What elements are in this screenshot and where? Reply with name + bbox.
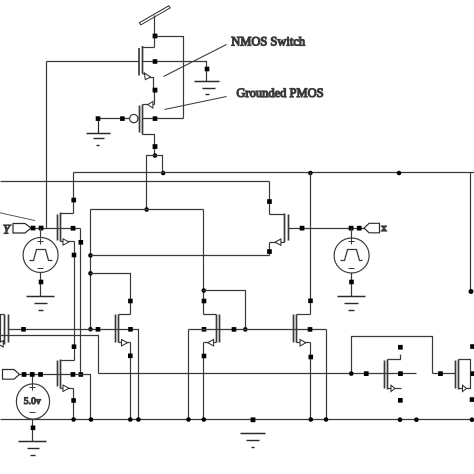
join square gate rail west (23.5,329.5) (21, 327, 26, 332)
pin square V1 minus terminal (41,282) (39, 280, 44, 285)
wire M1 gate from node Y riser (47, 61, 140, 63)
junction dot bus1/M8-drain riser (310.4,173) (308, 171, 313, 176)
join square M4 drain (130.5,301) (128, 299, 133, 304)
transistor M1 NMOS Switch: gate bar (138, 48, 140, 76)
wire y=273.5 to M4 drain (91, 274, 131, 301)
wire M4 source lead down to bottom bus (119, 343, 131, 420)
pin square M8 bulk (310,329.5) (308, 327, 313, 332)
junction dot bus/M4 source (130.3,419.5) (128, 417, 133, 422)
junction dot split node (155,155.5) (153, 153, 158, 158)
wire M1 bulk to ground G1 (157, 62, 207, 82)
wire bottom bus ground rail y=419.5 (1, 419, 474, 421)
join square gate rail west (98,329.5) (96, 327, 101, 332)
annotation line to port Y (0, 213, 35, 221)
transistor M1b gate bar (139, 106, 141, 133)
wire loop right corner to M11 gate (433, 373, 456, 375)
pin square port X (359,228.5) (357, 226, 362, 231)
pin square M10 drain floating (400.3,347.2) (398, 345, 403, 350)
voltage source V1 pulse at node Y (23, 229, 58, 297)
junction dot bus/M6 source (203.8,419.5) (202, 417, 207, 422)
junction dot bus/P3 wire (91,419.5) (89, 417, 94, 422)
svg-text:NMOS Switch: NMOS Switch (231, 35, 306, 49)
wire y=255.5 to M5 source (91, 255, 270, 257)
arrow M3 source (NMOS mirrored, clipped) (0, 341, 3, 347)
transistor M10 gate bar (384, 361, 386, 389)
ground G2 under V1 (27, 297, 55, 311)
annotation line to NMOS Switch label (164, 45, 227, 77)
transistor M10 channel bar (387, 360, 389, 390)
bubble M1b PMOS gate (130, 114, 138, 122)
wire M4 drain lead up (119, 303, 131, 315)
ground G5 under V3 (19, 442, 47, 456)
join square M8 source (310.8,357) (309, 355, 314, 360)
transistor M6 gate bar (mirrored) (219, 315, 221, 343)
transistor M8 gate bar (293, 315, 295, 343)
wire M1 drain lead (143, 47, 155, 49)
ground G0 (M1b gate) (87, 121, 111, 146)
wire M5 drain lead up to bus2 (270, 182, 285, 215)
arrow M10 source (NMOS) (391, 385, 395, 391)
join square P3 wire (40.5,374.5) (38, 372, 43, 377)
junction dot right edge (471,291.5) (469, 289, 474, 294)
wire M2 source lead down to M9 drain (61, 242, 75, 361)
transistor M9 gate bar (57, 361, 59, 387)
junction square M1b drain (155,146.5) (153, 144, 158, 149)
wire VDD stem (154, 16, 156, 35)
pin square M11 bulk (473,373.5) (471, 371, 474, 376)
wire M9 drain lead (from M2 source) (61, 360, 75, 362)
transistor M1 channel bar (142, 46, 144, 74)
wire mid horizontal y=209.5 (M2 area to M6 drain) (91, 209, 204, 211)
svg-text:x: x (381, 222, 387, 234)
join square gate rail east (234,329.5) (232, 327, 237, 332)
arrow M4 source (NMOS) (122, 340, 128, 346)
junction dot on gate rail west (90.5,329.5) (88, 327, 93, 332)
ground G1 (M1 bulk) (195, 82, 220, 95)
join square M10 gate wire (366.5,373.5) (364, 371, 369, 376)
join square M5 drain (269.5,201.5) (267, 199, 272, 204)
svg-text:Grounded PMOS: Grounded PMOS (236, 86, 323, 100)
join square M11 gate wire (440.4,373.5) (438, 371, 443, 376)
junction dot bus1 (399,173) (397, 171, 402, 176)
wire M6 drain tap to gate rail east (diode connection) (204, 291, 246, 330)
wire split box: left leg to mid wire, right leg to bus1 (147, 156, 163, 210)
join square M4 source (130.3,355.8) (128, 354, 133, 359)
wire gate rail east left drop to bus (188, 330, 190, 420)
transistor M9 channel bar (60, 360, 62, 389)
join square M2 drain (73.5,200) (71, 198, 76, 203)
arrow M2 source (NMOS) (63, 239, 69, 245)
wire M2 drain lead up to bus1 (61, 173, 74, 214)
pin square ground G1 stem (207,69) (205, 67, 210, 72)
junction dot box-left on mid wire (146.5,209.5) (144, 207, 149, 212)
wire y=335.5 from left edge with drop to long wire (1, 336, 99, 374)
junction dot bus/M9 source (73.5,419.5) (71, 417, 76, 422)
wire port P3 to bottom bus (20, 375, 91, 420)
wire M1b drain to split node (154, 149, 156, 156)
wire right edge riser from bus1 (470, 173, 472, 292)
join square on Y drop (80.5,242) (79, 240, 84, 245)
pin square M4 bulk (130.5,329.5) (128, 327, 133, 332)
transistor M5 gate bar (mirrored) (288, 215, 290, 241)
wire VDD to M1 drain (154, 39, 156, 48)
wire M6 drain lead up to mid wire (204, 210, 217, 315)
pin square M11 source floating (472,399.5) (470, 397, 474, 402)
join square M5 source (269.5,251.5) (267, 249, 272, 254)
wire M1b bulk to box right edge (143, 118, 184, 120)
wire node Y riser (M1 gate to Y wire) (46, 62, 48, 229)
svg-text:5.0v: 5.0v (24, 397, 41, 407)
pin square V1 plus terminal (41,228.5) (39, 226, 44, 231)
junction dot bus/M8 bulk drop (326,419.5) (324, 417, 329, 422)
junction square node M1-source/M1b-source (155,90) (153, 88, 158, 93)
transistor M11 gate bar (455, 361, 457, 389)
port P3 pentagon (bottom left input) (3, 370, 20, 380)
wire bus2 horizontal y=181.5 (1, 181, 270, 183)
junction dot (90.5,273.5) (88, 271, 93, 276)
transistor M4 gate bar (115, 315, 117, 343)
pin square M9 bulk (73,374.5) (71, 372, 76, 377)
transistor M3 gate bar (left edge, mirrored) (8, 315, 10, 343)
transistor M11 channel bar (458, 360, 460, 390)
wire node Y horizontal (31, 228, 81, 230)
arrow M6 source (NMOS mirrored) (208, 340, 214, 346)
pin square port P3 (24,374.5) (22, 372, 27, 377)
junction dot (90.5,255.5) (88, 253, 93, 258)
join square M6 source (204,356) (202, 354, 207, 359)
pin square V3 minus terminal (33,428) (31, 426, 36, 431)
transistor M2 gate bar (57, 215, 59, 241)
port Y pentagon (13, 224, 31, 234)
wire M5 source lead down to y=255.5 wire (270, 243, 285, 256)
transistor M1b channel bar (142, 105, 144, 135)
pin square M1b bulk (155,118.5) (153, 116, 158, 121)
wire diode loop over M10 (gate tie) (352, 337, 433, 374)
voltage source V3 5.0v (16, 377, 49, 442)
pin square M6 bulk (204,329.5) (202, 327, 207, 332)
transistor M1b Grounded PMOS: source lead from node (154, 93, 156, 105)
wire long horizontal y=373.5 to M10 (99, 373, 417, 375)
pin square G0 stem top (98,118.5) (96, 116, 101, 121)
pin square V2 minus terminal (351.5,282) (349, 280, 354, 285)
wire M10 source stub (388, 388, 402, 390)
transistor M5 channel bar (284, 214, 286, 243)
wire M1 bulk loop box (top rail and right edge) (157, 37, 184, 119)
junction dot bus/M8 source (310.8,419.5) (309, 417, 314, 422)
arrow M1b source (PMOS) (148, 102, 153, 109)
pin square M10 bulk (400.5,373.5) (398, 371, 403, 376)
pin square V3 plus terminal (32,374.5) (30, 372, 35, 377)
annotation line to Grounded PMOS label (165, 97, 227, 110)
wire M9 source to bottom bus (73, 403, 75, 420)
wire gate rail east y=329.5 (M6,M8 gates) (189, 329, 327, 331)
ground G6 under bottom bus (241, 434, 266, 448)
junction dot on gate rail east (245.5,329.5) (243, 327, 248, 332)
wire M1 bulk stub (143, 61, 155, 63)
wire riser bus1 to M8 drain x=310.5 (310, 173, 312, 315)
junction dot M6 drain tap (204,290.5) (202, 288, 207, 293)
junction node VDD/M1-drain (155,36) (153, 34, 158, 39)
transistor M6 channel bar (216, 315, 218, 343)
power symbol VDD (slanted bar) (139, 6, 170, 25)
pin square M11 drain floating (472.5,346.5) (470, 344, 474, 349)
pin square M1 bulk (155,61.5) (153, 59, 158, 64)
junction dot loop left on gate wire (351.5,373.5) (349, 371, 354, 376)
wire M3 drain/source leads (clipped at edge) (1, 315, 5, 344)
junction dot bus/gate rail east drop (188.5,419.5) (186, 417, 191, 422)
port X pentagon (364, 223, 379, 233)
wire bus1 horizontal y=172.5 (74, 172, 474, 174)
join square M2 source (74,346.7) (72, 344, 77, 349)
pin square M10 source floating (400.3,400.3) (398, 398, 403, 403)
wire M6 source lead down to bottom bus (204, 343, 217, 420)
arrow M1 source (NMOS) (144, 73, 150, 80)
pin square ground G6 attach (253,419.5) (251, 417, 256, 422)
pin square M1b gate wire join (122.4,118.5) (120, 116, 125, 121)
join square Y drop at P3 wire (80.5,374.5) (79, 372, 84, 377)
arrow M9 source (NMOS) (63, 385, 69, 391)
junction dot bus below M10 (400,419.5) (398, 417, 403, 422)
wire gate rail west y=329.5 (M3,M4 gates) with drop to bus (9, 330, 139, 420)
wire M10 drain stub up (388, 355, 401, 360)
wire M1 source lead down to node (143, 74, 154, 91)
pin square M2 bulk on Y wire (73,228.5) (71, 226, 76, 231)
wire M5 gate to node X (289, 228, 365, 230)
junction dot bus below wire end (416.4,419.5) (414, 417, 419, 422)
wire left column riser x=90.5 (90, 210, 92, 330)
join square M8 drain (310.5,300.8) (308, 299, 313, 304)
arrow M11 source (NMOS) (463, 385, 467, 391)
wire M8 drain lead to bus1 riser (297, 314, 311, 316)
transistor M4 channel bar (118, 315, 120, 343)
wire M1b drain lead down (143, 135, 155, 147)
wire gate rail east right drop to bus (326, 330, 328, 420)
wire M8 source lead down to bottom bus (297, 343, 311, 420)
wire node Y drop to P3 wire (80, 229, 82, 375)
wire M9 source lead down (61, 389, 74, 401)
pin square V2 plus terminal (351,228.5) (349, 226, 354, 231)
wire M1b gate to ground G0 (99, 118, 130, 120)
transistor M2 channel bar (60, 213, 62, 242)
transistor M8 channel bar (296, 315, 298, 343)
join square M9 source (73.5,400.5) (71, 398, 76, 403)
arrow M5 source (NMOS mirrored) (275, 239, 281, 245)
join square M6 drain (204,301) (202, 299, 207, 304)
transistor M3 channel bar (4, 315, 6, 345)
join square M2 source (74,255) (72, 253, 77, 258)
ground G4 under V2 (338, 297, 366, 311)
wire M11 drain-source strap (459, 360, 471, 389)
pin square port Y (33,228.5) (31, 226, 36, 231)
junction dot bus below M11 (472,419.5) (470, 417, 474, 422)
arrow M8 source (NMOS) (300, 340, 306, 346)
voltage source V2 pulse at node X (334, 229, 369, 297)
junction dot box-right on bus1 (163,173) (161, 171, 166, 176)
wire M1b source lead horizontal (143, 104, 155, 106)
join square node X wire (302,228.5) (300, 226, 305, 231)
junction dot bus/M4 bulk drop (138.4,419.5) (136, 417, 141, 422)
